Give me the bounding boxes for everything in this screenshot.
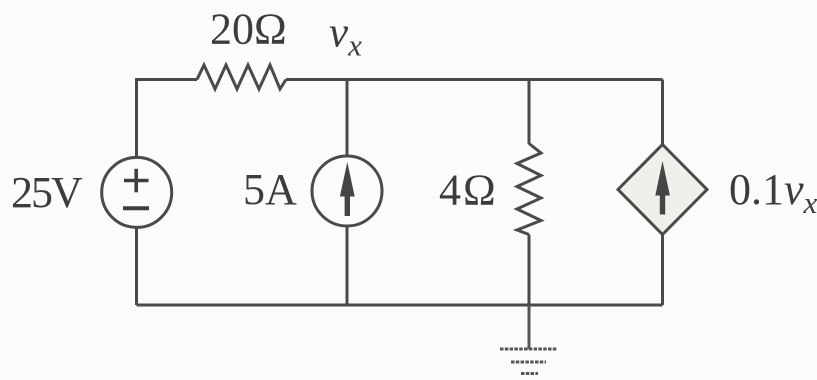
wire dependent branch lower <box>661 235 664 306</box>
wire top from resistor to right corner <box>286 78 663 81</box>
wire 5A branch lower <box>346 226 349 306</box>
wire 4ohm branch upper <box>528 80 531 145</box>
svg-text:5A: 5A <box>243 165 297 214</box>
G1 arrow <box>655 161 670 215</box>
current source I1 circle <box>312 156 382 226</box>
wire dependent branch upper <box>661 80 664 146</box>
wire 5A branch upper <box>346 80 349 157</box>
voltage source V1 circle <box>102 157 172 227</box>
wire bottom rail <box>137 304 663 307</box>
I1 arrow <box>340 162 355 216</box>
svg-text:25V: 25V <box>11 168 83 217</box>
dependent current source G1 diamond <box>618 145 707 235</box>
wire left lower <box>135 228 138 306</box>
V1 minus sign <box>123 206 149 210</box>
svg-text:20Ω: 20Ω <box>210 5 287 54</box>
svg-text:4Ω: 4Ω <box>439 166 498 215</box>
ground <box>500 305 557 374</box>
wire 4ohm branch lower <box>528 235 531 306</box>
V1 plus sign <box>124 169 149 193</box>
resistor R2 4ohm <box>517 144 541 235</box>
resistor R1 20ohm <box>197 65 286 89</box>
wire top-left lead <box>137 80 198 158</box>
